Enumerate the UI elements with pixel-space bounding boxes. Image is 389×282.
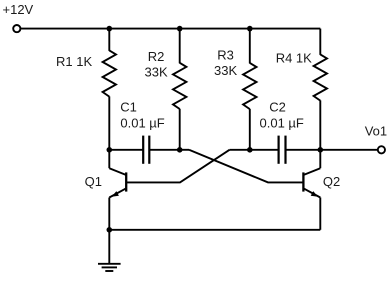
svg-text:Q2: Q2 (323, 174, 340, 189)
svg-text:R2: R2 (148, 49, 165, 64)
svg-text:33K: 33K (214, 63, 237, 78)
svg-text:+12V: +12V (3, 2, 34, 17)
svg-text:Q1: Q1 (85, 174, 102, 189)
svg-text:R1 1K: R1 1K (56, 54, 92, 69)
svg-text:0.01 µF: 0.01 µF (120, 115, 164, 130)
svg-text:C1: C1 (120, 100, 137, 115)
svg-text:C2: C2 (269, 100, 286, 115)
svg-text:33K: 33K (145, 65, 168, 80)
svg-text:Vo1: Vo1 (365, 123, 387, 138)
svg-text:R4 1K: R4 1K (276, 50, 312, 65)
svg-text:R3: R3 (217, 48, 234, 63)
svg-text:0.01 µF: 0.01 µF (260, 116, 304, 131)
